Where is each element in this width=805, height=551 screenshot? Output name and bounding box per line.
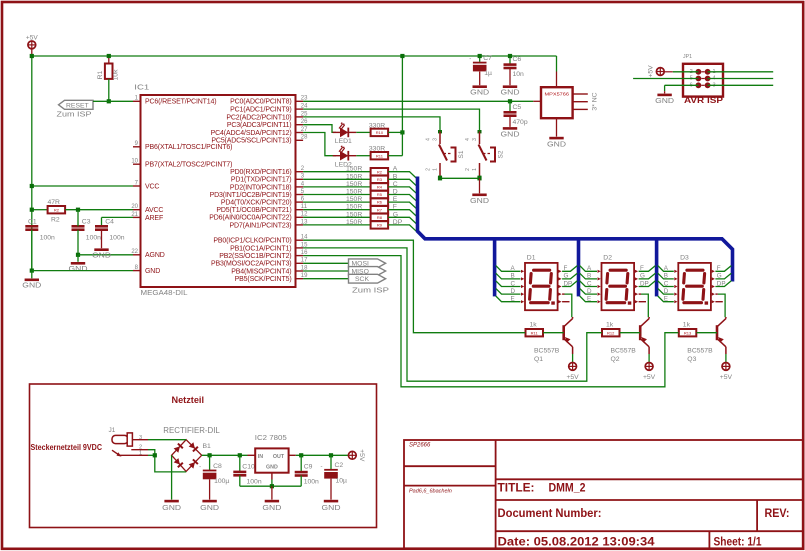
wire pin27 to LED2 bbox=[303, 133, 336, 156]
wire RESET to IC1 pin1 bbox=[93, 100, 133, 102]
junction bbox=[30, 208, 34, 212]
svg-text:C4: C4 bbox=[105, 219, 114, 226]
svg-text:150R: 150R bbox=[346, 211, 362, 218]
svg-text:SCK: SCK bbox=[355, 276, 369, 283]
rectifier bridge B1 RECTIFIER-DIL bbox=[172, 440, 202, 472]
bus main display bus bbox=[418, 177, 733, 282]
wire JP1 ground drop bbox=[664, 85, 666, 91]
svg-text:PB7(XTAL2/TOSC2/PCINT7): PB7(XTAL2/TOSC2/PCINT7) bbox=[145, 162, 232, 169]
junction bbox=[477, 176, 481, 180]
wire segment F into bus bbox=[388, 210, 416, 216]
svg-text:Q1: Q1 bbox=[534, 356, 543, 363]
+5V supply at Q3 bbox=[722, 363, 730, 371]
svg-text:R2: R2 bbox=[377, 169, 383, 174]
svg-text:C6: C6 bbox=[513, 56, 522, 63]
svg-text:330R: 330R bbox=[369, 146, 385, 153]
svg-text:D: D bbox=[511, 288, 516, 295]
svg-text:100n: 100n bbox=[40, 235, 55, 242]
svg-text:PB3(MOSI/OC2A/PCINT3): PB3(MOSI/OC2A/PCINT3) bbox=[211, 261, 291, 268]
capacitor C6 10n bbox=[504, 56, 525, 78]
svg-text:PD2(INT0/PCINT18): PD2(INT0/PCINT18) bbox=[230, 184, 292, 191]
wire C5 to ground bbox=[509, 116, 511, 127]
junction bbox=[76, 208, 80, 212]
svg-text:GND: GND bbox=[92, 251, 112, 260]
svg-text:S2: S2 bbox=[498, 150, 505, 158]
svg-text:G: G bbox=[717, 273, 722, 280]
junction bbox=[329, 453, 333, 457]
svg-text:150R: 150R bbox=[346, 196, 362, 203]
ground below C7 bbox=[470, 85, 490, 96]
svg-text:SP2666: SP2666 bbox=[409, 443, 431, 449]
junction bbox=[400, 130, 404, 134]
wire R1 bottom to RESET net bbox=[108, 79, 110, 101]
svg-text:TITLE:: TITLE: bbox=[498, 481, 535, 495]
junction bbox=[400, 54, 404, 58]
junction bbox=[76, 253, 80, 257]
svg-text:RESET: RESET bbox=[66, 103, 89, 110]
svg-text:PD3(INT1/OC2B/PCINT19): PD3(INT1/OC2B/PCINT19) bbox=[210, 192, 292, 199]
svg-text:470p: 470p bbox=[513, 119, 528, 126]
junction bbox=[508, 99, 512, 103]
svg-text:F: F bbox=[564, 265, 568, 272]
svg-text:PB0(ICP1/CLKO/PCINT0): PB0(ICP1/CLKO/PCINT0) bbox=[213, 238, 291, 245]
svg-text:PB1(OC1A/PCINT1): PB1(OC1A/PCINT1) bbox=[230, 245, 291, 252]
switch S2 bbox=[465, 130, 505, 179]
wire +5V top rail bbox=[32, 55, 557, 57]
wire C3 bottom bbox=[77, 230, 79, 255]
svg-text:DP: DP bbox=[640, 280, 649, 287]
svg-text:DP: DP bbox=[564, 280, 573, 287]
wire bus to D1 segment E bbox=[496, 296, 521, 302]
wire 330R lower to +5V net bbox=[388, 155, 402, 157]
wire JP1 ground stub bbox=[664, 91, 666, 93]
svg-text:+5V: +5V bbox=[26, 35, 38, 42]
resistor 150R segment C bbox=[371, 183, 389, 190]
wire bridge plus to regulator bbox=[202, 454, 248, 456]
junction bbox=[238, 453, 242, 457]
svg-text:2: 2 bbox=[426, 168, 432, 171]
ground below C3 bbox=[69, 262, 89, 273]
wire C7 top bbox=[479, 56, 481, 62]
connector JP1 AVR ISP bbox=[683, 64, 723, 97]
wire pin14 to Q1 bbox=[303, 240, 525, 333]
svg-text:D2: D2 bbox=[603, 255, 612, 262]
svg-text:IN: IN bbox=[258, 454, 263, 460]
wire bus to D2 segment D bbox=[580, 288, 597, 294]
wire J1 pin1 bbox=[148, 454, 155, 456]
svg-text:PC3(ADC3/PCINT11): PC3(ADC3/PCINT11) bbox=[227, 122, 292, 129]
junction bbox=[107, 54, 111, 58]
svg-text:10: 10 bbox=[131, 159, 138, 165]
wire C3 to ground bbox=[77, 255, 79, 262]
wire C6 top bbox=[509, 56, 511, 64]
wire rail to ground symbol bbox=[271, 486, 273, 499]
svg-text:GND: GND bbox=[470, 196, 490, 205]
svg-text:PD4(T0/XCK/PCINT20): PD4(T0/XCK/PCINT20) bbox=[221, 200, 292, 207]
switch S1 bbox=[426, 130, 466, 179]
wire to R2 bbox=[32, 209, 47, 211]
junction bbox=[299, 453, 303, 457]
junction bbox=[208, 453, 212, 457]
wire +5V to JP1 pin2 bbox=[664, 71, 672, 73]
svg-text:C5: C5 bbox=[513, 104, 522, 111]
svg-text:IC2 7805: IC2 7805 bbox=[255, 433, 287, 442]
connector J1 power jack bbox=[112, 433, 148, 457]
svg-text:Zum ISP: Zum ISP bbox=[352, 285, 389, 294]
wire segment B into bus bbox=[388, 179, 416, 185]
svg-text:+5V: +5V bbox=[648, 65, 655, 78]
wire J1 pin3 to bridge top bbox=[148, 439, 186, 441]
svg-text:G: G bbox=[640, 273, 645, 280]
wire pin26 to LED1 bbox=[303, 125, 336, 133]
svg-text:GND: GND bbox=[470, 87, 490, 96]
display 7-segment display D3 bbox=[674, 255, 715, 311]
svg-text:B: B bbox=[511, 273, 515, 280]
svg-text:Steckernetzteil 9VDC: Steckernetzteil 9VDC bbox=[31, 442, 103, 452]
sensor left pin bbox=[533, 100, 541, 102]
ground below C8 bbox=[200, 500, 220, 512]
svg-text:1k: 1k bbox=[606, 321, 614, 328]
wire pin23 to pressure sensor bbox=[303, 100, 533, 102]
svg-text:100µ: 100µ bbox=[214, 478, 229, 485]
wire pin to SCK flag bbox=[303, 278, 348, 280]
svg-text:C1: C1 bbox=[28, 219, 37, 226]
wire D3 segment DP to bus bbox=[715, 281, 731, 287]
svg-text:E: E bbox=[511, 296, 515, 303]
sensor ground pin bbox=[556, 118, 558, 136]
svg-text:BC557B: BC557B bbox=[534, 348, 560, 355]
svg-text:47R: 47R bbox=[48, 199, 61, 206]
svg-text:PC6(/RESET/PCINT14): PC6(/RESET/PCINT14) bbox=[145, 99, 216, 106]
capacitor C1 100n bbox=[25, 226, 38, 229]
svg-text:F: F bbox=[640, 265, 644, 272]
ground below IC2 bbox=[262, 500, 282, 512]
svg-text:R3: R3 bbox=[377, 177, 383, 182]
display 7-segment display D2 bbox=[598, 255, 639, 311]
resistor 150R segment F bbox=[371, 206, 389, 213]
bus vertical drop D1 bbox=[493, 241, 497, 297]
svg-text:1k: 1k bbox=[683, 321, 691, 328]
svg-text:R11: R11 bbox=[376, 153, 384, 158]
IC2 GND pin bbox=[271, 473, 273, 480]
ground below C1 bbox=[22, 279, 42, 290]
svg-text:IC1: IC1 bbox=[134, 85, 149, 92]
svg-text:J1: J1 bbox=[109, 427, 116, 434]
capacitor C3 100n bbox=[72, 226, 85, 229]
svg-text:R1: R1 bbox=[97, 70, 104, 79]
wire IC1 to segment resistor B bbox=[303, 178, 370, 180]
wire bus to D1 segment A bbox=[496, 266, 521, 272]
wire pin to MOSI flag bbox=[303, 262, 348, 264]
wire into JP1 pin2 bbox=[673, 71, 699, 73]
wire D2 segment F to bus bbox=[639, 266, 656, 272]
wire to switch ground bbox=[479, 178, 481, 193]
capacitor C8 100u polarized bbox=[199, 463, 229, 485]
wire C4 top bbox=[101, 217, 103, 226]
svg-text:PC0(ADC0/PCINT8): PC0(ADC0/PCINT8) bbox=[230, 99, 291, 106]
net flag MISO bbox=[349, 267, 386, 276]
svg-text:Sheet: 1/1: Sheet: 1/1 bbox=[714, 536, 763, 548]
svg-text:150R: 150R bbox=[346, 166, 362, 173]
ground below C6 bbox=[501, 85, 521, 96]
svg-text:DMM_2: DMM_2 bbox=[549, 481, 586, 495]
wire 1k to Q3 base bbox=[697, 332, 718, 334]
wire D2 common pin stub bbox=[639, 293, 641, 295]
wire D2 second common stub bbox=[639, 301, 646, 303]
capacitor C5 470p bbox=[504, 104, 528, 126]
wire bus to D3 segment B bbox=[658, 273, 674, 279]
ground below C5 bbox=[501, 127, 521, 138]
wire ground rail C10-C9 bbox=[240, 485, 301, 487]
wire J1 pin2 to bridge bottom bbox=[148, 450, 186, 472]
svg-text:E: E bbox=[587, 296, 591, 303]
svg-text:150R: 150R bbox=[346, 204, 362, 211]
svg-text:+5V: +5V bbox=[720, 374, 733, 381]
wire 1k to Q1 base bbox=[543, 332, 564, 334]
svg-text:D: D bbox=[587, 288, 592, 295]
wire C2 top bbox=[330, 455, 332, 469]
svg-text:330R: 330R bbox=[369, 122, 385, 129]
svg-text:BC557B: BC557B bbox=[611, 348, 637, 355]
svg-text:GND: GND bbox=[162, 503, 182, 512]
svg-text:100n: 100n bbox=[247, 479, 262, 486]
wire D3 segment G to bus bbox=[715, 273, 731, 279]
wire Q3 emitter to +5V bbox=[725, 354, 727, 362]
power supply section box (Netzteil) bbox=[30, 384, 377, 528]
op IC1 MEGA48-DIL body bbox=[141, 95, 296, 287]
resistor 1k base Q2 bbox=[602, 329, 620, 336]
title block frame bbox=[404, 440, 803, 548]
wire 1k to Q2 base bbox=[620, 332, 641, 334]
svg-text:R8: R8 bbox=[377, 215, 383, 220]
svg-text:GND: GND bbox=[69, 264, 89, 273]
resistor R1 10k bbox=[97, 64, 120, 81]
svg-text:AVR ISP: AVR ISP bbox=[684, 96, 724, 105]
wire LED2 to R330 bbox=[356, 155, 370, 157]
LED LED1 bbox=[333, 122, 357, 137]
svg-text:R9: R9 bbox=[377, 223, 383, 228]
wire +5V stub bbox=[31, 49, 33, 56]
sensor NC pins bbox=[573, 94, 588, 109]
wire bus to D3 segment E bbox=[658, 296, 674, 302]
wire C9 bottom bbox=[300, 476, 302, 487]
wire D2 common to transistor bbox=[641, 294, 648, 317]
wire JP1 pin5 stub bbox=[633, 78, 698, 80]
wire segment C into bus bbox=[388, 187, 416, 193]
wire C8 to ground bbox=[209, 479, 211, 499]
wire C1 to ground bbox=[31, 271, 33, 279]
svg-text:GND: GND bbox=[501, 129, 521, 138]
svg-text:B: B bbox=[587, 273, 591, 280]
wire bus to D2 segment B bbox=[580, 273, 597, 279]
svg-text:-: - bbox=[199, 465, 201, 471]
svg-text:Document Number:: Document Number: bbox=[498, 506, 602, 520]
svg-text:C: C bbox=[511, 280, 516, 287]
resistor 150R segment D bbox=[371, 191, 389, 198]
wire bus to D2 segment C bbox=[580, 281, 597, 287]
wire AREF pin21 bbox=[102, 216, 134, 218]
svg-text:PB6(XTAL1/TOSC1/PCINT6): PB6(XTAL1/TOSC1/PCINT6) bbox=[145, 144, 232, 151]
wire D1 segment DP to bus bbox=[562, 281, 577, 287]
svg-text:GND: GND bbox=[266, 465, 278, 471]
svg-text:F: F bbox=[717, 265, 721, 272]
resistor 330R lower bbox=[371, 152, 389, 159]
wire segment E into bus bbox=[388, 202, 416, 208]
wire +5V vertical left bbox=[31, 56, 33, 271]
wire C2 to ground bbox=[330, 479, 332, 500]
wire IC1 to segment resistor F bbox=[303, 209, 370, 211]
transistor Q1 BC557B bbox=[564, 317, 573, 354]
junction bbox=[508, 54, 512, 58]
svg-text:R4: R4 bbox=[377, 185, 383, 190]
svg-text:JP1: JP1 bbox=[683, 54, 692, 60]
svg-text:150R: 150R bbox=[346, 181, 362, 188]
wire pin24 to S2 bbox=[303, 109, 479, 131]
bus vertical drop D2 bbox=[577, 241, 581, 297]
wire bus to D1 segment C bbox=[496, 281, 521, 287]
svg-text:MEGA48-DIL: MEGA48-DIL bbox=[141, 290, 188, 297]
wire JP1 pin3 out bbox=[708, 84, 774, 86]
svg-text:+5V: +5V bbox=[566, 374, 579, 381]
wire D1 segment G to bus bbox=[562, 273, 577, 279]
svg-text:PD7(AIN1/PCINT23): PD7(AIN1/PCINT23) bbox=[229, 222, 291, 229]
svg-text:PD0(RXD/PCINT16): PD0(RXD/PCINT16) bbox=[230, 169, 291, 176]
svg-text:GND: GND bbox=[262, 503, 282, 512]
IC2 IN pin bbox=[248, 454, 256, 456]
svg-text:OUT: OUT bbox=[273, 454, 285, 460]
svg-text:10k: 10k bbox=[113, 69, 120, 81]
ground below C4 bbox=[92, 248, 112, 259]
svg-text:B: B bbox=[664, 273, 668, 280]
LED LED2 bbox=[333, 145, 357, 160]
junction bbox=[30, 184, 34, 188]
wire IC1 to segment resistor G bbox=[303, 216, 370, 218]
wire bus to D1 segment D bbox=[496, 288, 521, 294]
svg-text:+5V: +5V bbox=[643, 374, 656, 381]
svg-text:PD6(AIN0/OC0A/PCINT22): PD6(AIN0/OC0A/PCINT22) bbox=[209, 215, 291, 222]
capacitor C10 100n bbox=[233, 472, 246, 475]
svg-text:R12: R12 bbox=[607, 330, 615, 335]
svg-text:100n: 100n bbox=[304, 479, 319, 486]
svg-text:REV:: REV: bbox=[765, 508, 790, 520]
wire pin15 to Q2 bbox=[303, 248, 602, 381]
wire D3 common pin stub bbox=[715, 293, 717, 295]
svg-text:C7: C7 bbox=[483, 55, 492, 62]
svg-text:C8: C8 bbox=[213, 463, 222, 470]
IC1 right pins bbox=[209, 96, 308, 283]
svg-text:3: 3 bbox=[139, 435, 142, 441]
wire IC2 ground drop bbox=[271, 480, 273, 487]
svg-text:150R: 150R bbox=[346, 219, 362, 226]
wire GND pin8 bbox=[32, 270, 133, 272]
svg-text:PC1(ADC1/PCINT9): PC1(ADC1/PCINT9) bbox=[230, 107, 291, 114]
svg-text:Zum ISP: Zum ISP bbox=[57, 110, 92, 119]
IC1 left pins bbox=[131, 96, 232, 275]
svg-text:100n: 100n bbox=[109, 235, 124, 242]
svg-text:Date: 05.08.2012 13:09:34: Date: 05.08.2012 13:09:34 bbox=[498, 534, 655, 548]
net flag RESET bbox=[59, 100, 94, 109]
svg-text:B1: B1 bbox=[203, 443, 212, 450]
junction bbox=[30, 269, 34, 273]
svg-text:S1: S1 bbox=[458, 150, 465, 158]
wire D2 segment DP to bus bbox=[639, 281, 656, 287]
svg-text:1k: 1k bbox=[530, 321, 538, 328]
wire D3 second common stub bbox=[715, 301, 722, 303]
junction bbox=[153, 453, 157, 457]
svg-text:GND: GND bbox=[145, 268, 160, 275]
svg-text:PC5(ADC5/SCL/PCINT13): PC5(ADC5/SCL/PCINT13) bbox=[211, 138, 291, 145]
svg-text:10n: 10n bbox=[513, 71, 525, 78]
svg-text:3: 3 bbox=[433, 138, 439, 141]
wire C7 to ground bbox=[479, 72, 481, 86]
junction bbox=[30, 54, 34, 58]
svg-text:PD1(TXD/PCINT17): PD1(TXD/PCINT17) bbox=[231, 177, 292, 184]
svg-text:150R: 150R bbox=[346, 173, 362, 180]
wire IC1 to segment resistor A bbox=[303, 171, 370, 173]
svg-text:R10: R10 bbox=[376, 130, 384, 135]
svg-text:PC4(ADC4/SDA/PCINT12): PC4(ADC4/SDA/PCINT12) bbox=[211, 130, 292, 137]
svg-text:D1: D1 bbox=[527, 255, 536, 262]
transistor Q2 BC557B bbox=[640, 317, 649, 354]
wire D1 common to transistor bbox=[565, 294, 572, 317]
svg-text:D3: D3 bbox=[680, 255, 689, 262]
wire bridge minus to ground bbox=[171, 455, 173, 499]
svg-text:C10: C10 bbox=[242, 464, 255, 471]
wire bus to D2 segment A bbox=[580, 266, 597, 272]
capacitor C9 100n bbox=[295, 464, 319, 486]
resistor 150R segment E bbox=[371, 198, 389, 205]
wire segment D into bus bbox=[388, 195, 416, 201]
wire R1 top bbox=[108, 56, 110, 64]
svg-text:DP: DP bbox=[717, 280, 726, 287]
svg-text:MPX5766: MPX5766 bbox=[545, 91, 570, 96]
ground at JP1 bbox=[655, 94, 675, 105]
svg-text:150R: 150R bbox=[346, 189, 362, 196]
svg-text:G: G bbox=[564, 273, 569, 280]
ground below sensor bbox=[547, 137, 567, 149]
junction bbox=[438, 176, 442, 180]
svg-text:R2: R2 bbox=[51, 217, 60, 224]
wire IC1 to segment resistor D bbox=[303, 194, 370, 196]
svg-text:2: 2 bbox=[465, 168, 471, 171]
svg-text:GND: GND bbox=[200, 503, 220, 512]
wire LED1 to R330 bbox=[356, 131, 370, 133]
wire JP1 pin6 to ground bbox=[665, 84, 699, 86]
svg-text:R5: R5 bbox=[377, 192, 383, 197]
wire R2 to AVCC pin20 bbox=[65, 209, 133, 211]
svg-text:-: - bbox=[321, 464, 323, 470]
svg-text:Q2: Q2 bbox=[611, 356, 620, 363]
wire segment G into bus bbox=[388, 217, 416, 223]
capacitor C7 1u polarized bbox=[469, 55, 492, 77]
junction bbox=[107, 99, 111, 103]
wire D1 second common stub bbox=[562, 301, 569, 303]
svg-text:GND: GND bbox=[655, 96, 675, 105]
svg-text:4: 4 bbox=[465, 138, 471, 141]
wire C9 top bbox=[300, 455, 302, 472]
resistor 150R segment A bbox=[371, 168, 389, 175]
bus vertical drop D3 bbox=[655, 241, 659, 297]
wire segment DP into bus bbox=[388, 225, 416, 231]
svg-text:GND: GND bbox=[22, 281, 42, 290]
wire D3 segment F to bus bbox=[715, 266, 731, 272]
+5V supply at JP1 bbox=[656, 68, 664, 76]
svg-text:C2: C2 bbox=[335, 462, 344, 469]
svg-text:1: 1 bbox=[472, 168, 478, 171]
svg-text:1: 1 bbox=[433, 168, 439, 171]
wire +5V drop for LEDs bbox=[401, 56, 403, 156]
svg-text:100n: 100n bbox=[86, 235, 101, 242]
